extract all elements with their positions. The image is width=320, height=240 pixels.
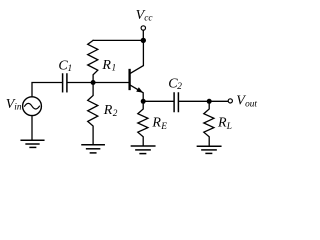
label R1 — [101, 58, 116, 73]
voltage source Vin — [23, 97, 42, 116]
terminal Vout — [228, 99, 232, 103]
label C1 — [58, 59, 72, 74]
label RL — [217, 116, 232, 132]
ground (below R2) — [82, 145, 104, 153]
wire (Vin top to C1 left plate) — [32, 83, 62, 97]
ground (below RE) — [131, 146, 154, 154]
svg-text:1: 1 — [112, 63, 117, 73]
resistor RE — [138, 101, 148, 145]
resistor R1 — [88, 40, 98, 82]
svg-text:R: R — [217, 116, 227, 131]
wire (Vcc terminal to junction) — [142, 30, 144, 40]
svg-text:L: L — [226, 122, 232, 132]
node (emitter junction) — [141, 99, 146, 104]
label Vin — [6, 97, 22, 112]
wire (Vin bottom to ground) — [31, 116, 33, 140]
transistor Q1 — [130, 40, 144, 101]
svg-text:R: R — [103, 103, 113, 118]
wire (C2 to Vout terminal) — [179, 100, 228, 102]
resistor RL — [204, 101, 214, 145]
ground (below Vin) — [21, 140, 44, 147]
node (Vcc junction) — [141, 38, 146, 43]
wire (C1 to transistor base) — [68, 82, 130, 84]
label R2 — [103, 103, 118, 119]
svg-text:1: 1 — [68, 64, 73, 74]
svg-text:2: 2 — [113, 109, 118, 119]
resistor R2 — [88, 83, 98, 145]
svg-text:R: R — [101, 58, 111, 73]
wire (emitter to C2) — [143, 100, 173, 102]
svg-text:cc: cc — [144, 13, 153, 23]
label Vcc — [136, 8, 154, 23]
capacitor C1 — [63, 74, 67, 92]
svg-text:E: E — [160, 122, 167, 132]
ground (below RL) — [197, 146, 220, 153]
svg-text:2: 2 — [177, 82, 182, 92]
power terminal Vcc — [141, 26, 145, 30]
svg-text:out: out — [245, 99, 257, 109]
capacitor C2 — [174, 93, 178, 112]
node (base divider junction) — [91, 80, 96, 85]
label RE — [151, 116, 167, 132]
wire (R1 top to Vcc junction) — [93, 39, 143, 41]
label C2 — [168, 77, 182, 92]
svg-text:R: R — [151, 116, 161, 131]
svg-text:in: in — [14, 103, 22, 113]
label Vout — [236, 94, 257, 110]
node (output junction) — [207, 99, 212, 104]
